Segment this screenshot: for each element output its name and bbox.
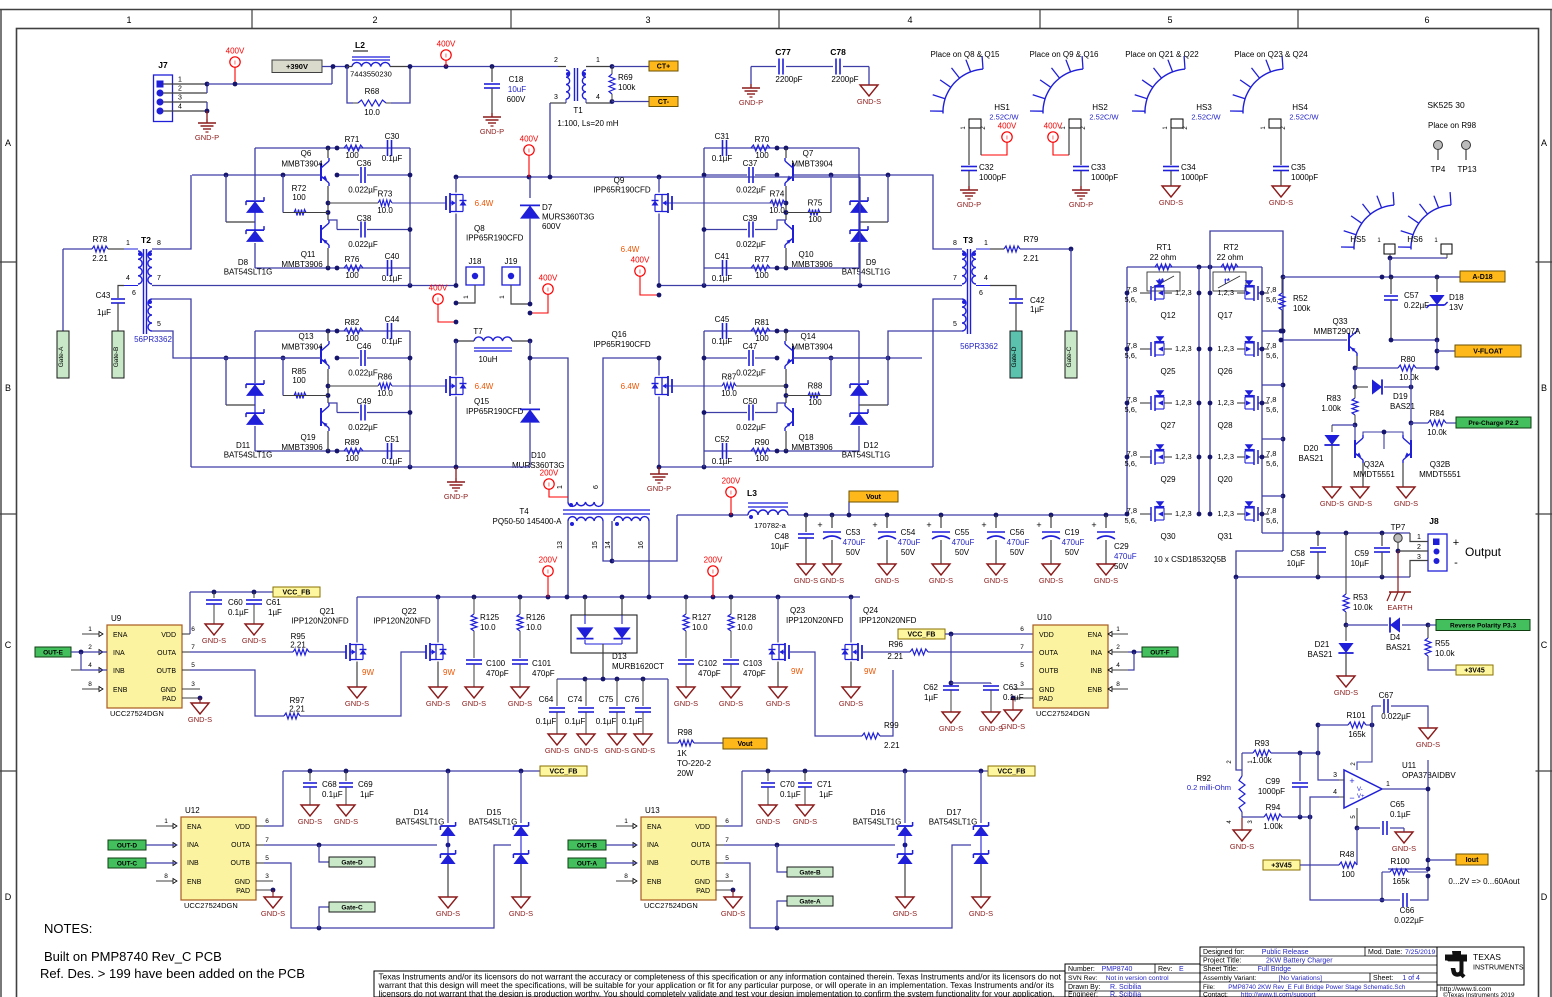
port OUT-A: [568, 858, 637, 868]
svg-text:C69: C69: [358, 780, 373, 789]
svg-text:R79: R79: [1024, 235, 1039, 244]
svg-text:10.0k: 10.0k: [1435, 649, 1456, 658]
svg-text:OUT-B: OUT-B: [577, 843, 598, 850]
svg-text:D7: D7: [542, 203, 553, 212]
diode D15: [469, 771, 529, 897]
capacitor C32: [961, 128, 1006, 186]
resistor R52: [1279, 275, 1311, 334]
svg-text:GND-S: GND-S: [1394, 499, 1418, 508]
svg-text:C29: C29: [1114, 542, 1129, 551]
mosfet Q8: [446, 177, 524, 285]
svg-text:2.52C/W: 2.52C/W: [1191, 113, 1221, 122]
svg-text:GND-S: GND-S: [929, 576, 953, 585]
connector J7: [154, 60, 208, 122]
svg-text:GND-S: GND-S: [719, 699, 743, 708]
wire U13 VDD: [724, 771, 742, 826]
TI logo: [1443, 951, 1524, 997]
ground GND-S C61: [242, 624, 266, 645]
ground GND-S C103: [719, 687, 743, 708]
net label CT-: [612, 97, 678, 107]
svg-text:1: 1: [1386, 781, 1390, 788]
power flag 200V T4 pin1: [540, 469, 568, 498]
capacitor C67: [1372, 691, 1428, 728]
power flag 200V L3: [722, 477, 741, 516]
svg-text:+390V: +390V: [286, 62, 308, 71]
svg-text:GND-S: GND-S: [605, 746, 629, 755]
power flag 400V Q16: [631, 256, 659, 296]
svg-text:T7: T7: [473, 327, 483, 336]
transistor Q18: [785, 386, 833, 452]
svg-text:2: 2: [554, 57, 558, 64]
power flag 200V left: [539, 556, 558, 598]
svg-text:470uF: 470uF: [898, 538, 921, 547]
port Gate-A: [57, 331, 69, 378]
svg-text:D10: D10: [531, 451, 546, 460]
svg-text:GND-S: GND-S: [426, 699, 450, 708]
svg-text:C31: C31: [715, 132, 730, 141]
resistor R53: [1343, 533, 1374, 627]
svg-text:C44: C44: [385, 315, 400, 324]
svg-text:10.0: 10.0: [692, 623, 708, 632]
svg-text:R71: R71: [345, 135, 360, 144]
test point TP13: [1457, 141, 1477, 175]
svg-text:5,6,: 5,6,: [1266, 516, 1279, 525]
svg-text:B: B: [5, 383, 11, 393]
svg-text:C56: C56: [1010, 528, 1025, 537]
svg-text:UCC27524DGN: UCC27524DGN: [644, 901, 698, 910]
svg-text:R84: R84: [1430, 409, 1445, 418]
wire T1 pin3 drop: [549, 103, 551, 177]
wire opamp in3: [1318, 753, 1339, 780]
svg-text:2.21: 2.21: [92, 254, 108, 263]
svg-text:MMBT2907A: MMBT2907A: [1314, 327, 1361, 336]
svg-text:IPP120N20NFD: IPP120N20NFD: [859, 616, 917, 625]
svg-text:165k: 165k: [1392, 877, 1410, 886]
ic U9: [71, 614, 200, 718]
svg-text:Gate-B: Gate-B: [113, 347, 120, 368]
transformer T2: [124, 235, 172, 344]
svg-text:GND-S: GND-S: [1269, 198, 1293, 207]
ground GND-S C71: [793, 805, 817, 826]
svg-text:6: 6: [132, 290, 136, 297]
transistor Q6: [281, 148, 329, 203]
resistor R80: [1353, 355, 1440, 382]
mosfet Q31: [1208, 501, 1279, 541]
svg-text:5: 5: [157, 321, 161, 328]
svg-text:R77: R77: [755, 255, 770, 264]
svg-text:GND-S: GND-S: [794, 576, 818, 585]
svg-text:3: 3: [265, 873, 269, 880]
svg-text:2200pF: 2200pF: [831, 75, 858, 84]
svg-text:RT2: RT2: [1224, 243, 1240, 252]
resistor R84: [1409, 387, 1456, 437]
svg-text:Q11: Q11: [301, 250, 316, 259]
node emitter Q14: [784, 384, 793, 398]
svg-text:INA: INA: [1090, 650, 1102, 657]
svg-text:MMBT3904: MMBT3904: [791, 343, 833, 352]
wire +390V to L2: [322, 64, 349, 69]
svg-text:3: 3: [1333, 772, 1337, 779]
svg-text:Contact:: Contact:: [1203, 992, 1228, 997]
svg-text:10.0: 10.0: [377, 206, 393, 215]
svg-text:GND-S: GND-S: [857, 97, 881, 106]
svg-text:IPP120N20NFD: IPP120N20NFD: [786, 616, 844, 625]
svg-text:MMBT3906: MMBT3906: [791, 260, 833, 269]
svg-text:C62: C62: [923, 683, 938, 692]
svg-text:R93: R93: [1255, 739, 1270, 748]
svg-text:INB: INB: [113, 668, 125, 675]
svg-text:OUTB: OUTB: [231, 860, 251, 867]
text Place on R98: [1428, 121, 1477, 130]
svg-text:IPP65R190CFD: IPP65R190CFD: [593, 186, 651, 195]
svg-text:600V: 600V: [507, 95, 526, 104]
svg-text:C67: C67: [1379, 691, 1394, 700]
mosfet Q23: [769, 597, 804, 687]
transistor Q11: [281, 203, 329, 269]
svg-text:MMBT3904: MMBT3904: [281, 343, 323, 352]
capacitor C100: [466, 659, 509, 687]
svg-text:C66: C66: [1400, 906, 1415, 915]
svg-text:GND: GND: [160, 687, 176, 694]
svg-text:2: 2: [1417, 544, 1421, 551]
svg-text:1000pF: 1000pF: [1181, 173, 1208, 182]
mosfet Q12: [1124, 280, 1201, 320]
svg-text:0.022µF: 0.022µF: [736, 423, 766, 432]
svg-text:+: +: [1349, 776, 1354, 786]
ground GND-S C63: [979, 712, 1003, 733]
svg-text:Q30: Q30: [1160, 532, 1176, 541]
svg-text:GND-S: GND-S: [631, 746, 655, 755]
svg-text:1 of 4: 1 of 4: [1402, 975, 1420, 982]
svg-text:D8: D8: [238, 258, 249, 267]
svg-text:0.022µF: 0.022µF: [348, 186, 378, 195]
svg-text:INA: INA: [647, 842, 659, 849]
svg-text:GND-P: GND-P: [480, 127, 504, 136]
svg-text:BAT54SLT1G: BAT54SLT1G: [842, 451, 891, 460]
wire driver cell rails Q13: [255, 329, 410, 454]
svg-text:Iout: Iout: [1466, 857, 1479, 864]
svg-text:4: 4: [88, 662, 92, 669]
svg-text:VDD: VDD: [695, 824, 710, 831]
resistor R79: [990, 235, 1073, 263]
heatsink HS4: [1230, 56, 1320, 130]
svg-text:C65: C65: [1390, 800, 1405, 809]
svg-text:8: 8: [1116, 681, 1120, 688]
svg-text:470uF: 470uF: [843, 538, 866, 547]
wire T2 pin5 to BL base: [152, 331, 321, 358]
svg-text:400V: 400V: [1044, 122, 1063, 131]
svg-text:200V: 200V: [704, 556, 723, 565]
svg-text:8: 8: [624, 873, 628, 880]
resistor R69: [609, 64, 636, 104]
svg-text:PAD: PAD: [236, 888, 250, 895]
svg-text:5: 5: [1167, 15, 1172, 25]
svg-text:U11: U11: [1402, 761, 1417, 770]
svg-text:IPP120N20NFD: IPP120N20NFD: [291, 617, 349, 626]
resistor R127: [683, 597, 712, 658]
svg-text:Q25: Q25: [1160, 367, 1176, 376]
capacitor C57: [1384, 277, 1429, 340]
svg-text:+: +: [1453, 537, 1459, 549]
wire U13 OUTA: [724, 843, 895, 848]
svg-text:CT-: CT-: [658, 99, 670, 106]
svg-text:600V: 600V: [542, 222, 561, 231]
wire T4 center tap: [603, 515, 677, 563]
svg-text:C40: C40: [385, 252, 400, 261]
ground GND-P J7: [195, 111, 219, 142]
svg-text:5: 5: [265, 855, 269, 862]
ground GND-S Q32B: [1394, 487, 1418, 508]
svg-text:C64: C64: [539, 695, 554, 704]
svg-text:HS5: HS5: [1350, 235, 1366, 244]
svg-text:C43: C43: [96, 291, 111, 300]
svg-text:R68: R68: [365, 87, 380, 96]
diode D9: [842, 197, 891, 276]
svg-text:Q10: Q10: [798, 250, 814, 259]
ground GND-P HS1: [957, 186, 981, 209]
svg-text:ENB: ENB: [113, 687, 128, 694]
svg-text:7,8: 7,8: [1266, 449, 1276, 458]
svg-text:8: 8: [157, 240, 161, 247]
svg-text:HS3: HS3: [1196, 103, 1212, 112]
svg-text:Project Title:: Project Title:: [1203, 958, 1242, 965]
capacitor C69: [339, 771, 374, 805]
inductor T7: [454, 327, 533, 364]
svg-text:R127: R127: [692, 613, 712, 622]
transistor Q32A: [1353, 425, 1395, 487]
wire output minus rail: [1234, 551, 1410, 579]
ground GND-S Q32A: [1348, 487, 1372, 508]
jack J19: [499, 257, 530, 304]
capacitor C36: [335, 159, 413, 195]
svg-text:1: 1: [88, 626, 92, 633]
svg-text:MMDT5551: MMDT5551: [1419, 470, 1461, 479]
svg-text:1: 1: [126, 240, 130, 247]
svg-text:C102: C102: [698, 659, 718, 668]
net label +390V: [272, 60, 322, 73]
svg-text:GND-S: GND-S: [1230, 842, 1254, 851]
svg-text:C34: C34: [1181, 163, 1196, 172]
wire U9 VDD: [190, 590, 273, 634]
svg-text:Place on Q23 & Q24: Place on Q23 & Q24: [1234, 50, 1308, 59]
svg-text:ENB: ENB: [1088, 687, 1103, 694]
svg-text:200V: 200V: [539, 556, 558, 565]
svg-text:VDD: VDD: [235, 824, 250, 831]
svg-text:1µF: 1µF: [924, 693, 938, 702]
svg-text:GND-S: GND-S: [508, 699, 532, 708]
svg-text:HS4: HS4: [1292, 103, 1308, 112]
svg-text:C: C: [1541, 640, 1548, 650]
svg-text:0.022µF: 0.022µF: [348, 369, 378, 378]
resistor R68: [347, 67, 410, 118]
svg-text:5,6,: 5,6,: [1124, 516, 1137, 525]
power flag 400V at L2 out: [437, 40, 456, 67]
svg-text:B: B: [1541, 383, 1547, 393]
ground GND-P Q16: [647, 467, 671, 493]
svg-text:D11: D11: [236, 441, 251, 450]
resistor R87 gate: [668, 373, 786, 399]
test point TP7: [1391, 523, 1406, 553]
svg-text:INSTRUMENTS: INSTRUMENTS: [1473, 965, 1524, 972]
svg-text:5: 5: [1020, 662, 1024, 669]
svg-text:2.21: 2.21: [884, 741, 900, 750]
transistor Q33: [1279, 317, 1361, 368]
capacitor C102: [678, 659, 721, 687]
svg-text:C70: C70: [780, 780, 795, 789]
resistor R99: [789, 652, 900, 750]
svg-text:i: i: [730, 490, 731, 497]
svg-text:GND-S: GND-S: [545, 746, 569, 755]
svg-text:50V: 50V: [901, 548, 916, 557]
ground GND-S D15: [509, 897, 533, 918]
svg-text:C49: C49: [357, 397, 372, 406]
svg-text:R86: R86: [378, 373, 393, 382]
svg-text:7,8: 7,8: [1127, 506, 1137, 515]
svg-text:i: i: [1006, 135, 1007, 142]
svg-text:56PR3362: 56PR3362: [960, 342, 998, 351]
svg-text:100: 100: [755, 271, 769, 280]
ground GND-S HS3: [1159, 186, 1183, 207]
svg-text:OUT-E: OUT-E: [43, 650, 64, 657]
svg-text:VCC_FB: VCC_FB: [282, 590, 310, 597]
resistor R48: [1263, 828, 1357, 879]
svg-text:100: 100: [345, 454, 359, 463]
title block: [1065, 947, 1524, 997]
svg-text:C19: C19: [1065, 528, 1080, 537]
svg-text:170782-a: 170782-a: [754, 521, 787, 530]
svg-text:0.1µF: 0.1µF: [1003, 693, 1024, 702]
svg-text:1: 1: [557, 485, 564, 489]
heatsink HS5: [1341, 192, 1395, 254]
mosfet Q24: [842, 597, 877, 687]
wire T3 pin6 ground drop: [933, 299, 962, 467]
svg-text:GND-S: GND-S: [242, 636, 266, 645]
svg-text:BAT54SLT1G: BAT54SLT1G: [224, 268, 273, 277]
resistor R81: [751, 318, 770, 343]
svg-text:Full Bridge: Full Bridge: [1258, 966, 1292, 973]
svg-text:Place on Q8 & Q15: Place on Q8 & Q15: [931, 50, 1000, 59]
svg-text:R100: R100: [1390, 857, 1410, 866]
transistor Q14: [785, 331, 833, 386]
resistor R100: [1382, 857, 1428, 886]
resistor R86 gate: [328, 373, 446, 399]
svg-text:i: i: [547, 287, 548, 294]
svg-text:4: 4: [178, 104, 182, 111]
svg-text:BAS21: BAS21: [1386, 643, 1411, 652]
net label V-FLOAT: [1435, 340, 1521, 368]
svg-text:7,8: 7,8: [1266, 395, 1276, 404]
diode D10: [512, 341, 564, 470]
capacitor C29: [1091, 513, 1136, 571]
capacitor C68: [303, 771, 343, 805]
svg-text:R75: R75: [808, 199, 823, 208]
ground GND-S U9 pad: [188, 696, 212, 724]
svg-text:R87: R87: [722, 373, 737, 382]
svg-text:C78: C78: [830, 47, 846, 57]
svg-text:IPP65R190CFD: IPP65R190CFD: [466, 407, 524, 416]
svg-text:i: i: [547, 569, 548, 576]
svg-text:i: i: [712, 569, 713, 576]
wire U12 OUTA: [264, 843, 437, 848]
port OUT-E: [35, 647, 107, 670]
capacitor C76: [622, 679, 651, 734]
svg-text:8: 8: [953, 240, 957, 247]
svg-text:GND-S: GND-S: [721, 909, 745, 918]
svg-text:0.022µF: 0.022µF: [1394, 916, 1424, 925]
svg-text:2KW Battery Charger: 2KW Battery Charger: [1266, 958, 1333, 965]
resistor R95: [190, 632, 346, 655]
ground GND-S C53: [820, 564, 844, 585]
svg-text:GND-S: GND-S: [574, 746, 598, 755]
svg-text:C58: C58: [1290, 549, 1305, 558]
resistor R97: [190, 652, 426, 719]
svg-text:1: 1: [463, 295, 470, 299]
svg-text:MURB1620CT: MURB1620CT: [612, 662, 664, 671]
svg-text:R101: R101: [1346, 711, 1366, 720]
ground GND-S U10 pad: [1001, 696, 1025, 731]
svg-text:50V: 50V: [955, 548, 970, 557]
svg-text:6.4W: 6.4W: [621, 245, 640, 254]
svg-text:+: +: [981, 520, 986, 530]
svg-text:Place on Q21 & Q22: Place on Q21 & Q22: [1125, 50, 1199, 59]
svg-text:470uF: 470uF: [952, 538, 975, 547]
svg-text:i: i: [1052, 135, 1053, 142]
ground GND-S U13 pad: [721, 888, 745, 918]
diode D14: [396, 771, 456, 897]
svg-text:5,6,: 5,6,: [1266, 351, 1279, 360]
ground GND-S C29: [1094, 564, 1118, 585]
wire opamp in4: [1310, 797, 1339, 817]
svg-text:D15: D15: [487, 808, 502, 817]
mosfet Q27: [1124, 390, 1201, 430]
heatsink HS1: [930, 56, 1020, 130]
resistor R98: [668, 679, 723, 778]
resistor R74 gate: [668, 190, 786, 216]
svg-text:MMBT3906: MMBT3906: [281, 443, 323, 452]
wire RT2 bypass: [1210, 231, 1283, 277]
svg-text:MMBT3906: MMBT3906: [791, 443, 833, 452]
svg-text:R92: R92: [1196, 774, 1211, 783]
svg-text:6: 6: [725, 818, 729, 825]
wire base trunk Q14: [793, 356, 922, 405]
svg-text:NOTES:: NOTES:: [44, 921, 92, 936]
svg-text:1,2,3: 1,2,3: [1175, 288, 1192, 297]
svg-text:HS6: HS6: [1407, 235, 1423, 244]
svg-text:C38: C38: [357, 214, 372, 223]
svg-text:C35: C35: [1291, 163, 1306, 172]
capacitor C54: [872, 513, 920, 564]
ground GND-S C74: [574, 734, 598, 755]
svg-text:BAT54SLT1G: BAT54SLT1G: [224, 451, 273, 460]
resistor R88: [786, 382, 831, 408]
svg-text:2.52C/W: 2.52C/W: [989, 113, 1019, 122]
svg-text:165k: 165k: [1348, 730, 1366, 739]
svg-text:100k: 100k: [1293, 304, 1311, 313]
wire 400V trunk drop right: [859, 177, 861, 286]
svg-text:Gate-D: Gate-D: [1011, 346, 1018, 367]
wire T4 pin13: [567, 521, 569, 597]
svg-text:TEXAS: TEXAS: [1473, 952, 1501, 962]
wire array rails: [1127, 267, 1283, 551]
transistor Q10: [785, 203, 833, 269]
port Gate-B: [112, 331, 124, 378]
svg-text:J19: J19: [505, 257, 518, 266]
svg-text:GND-S: GND-S: [1416, 740, 1440, 749]
svg-text:TP7: TP7: [1391, 523, 1406, 532]
capacitor C47: [702, 342, 780, 378]
ground GND-S D21: [1334, 676, 1358, 697]
svg-text:MMBT3906: MMBT3906: [281, 260, 323, 269]
